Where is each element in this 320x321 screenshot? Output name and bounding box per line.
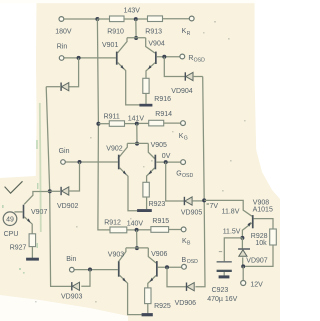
transistor V908	[252, 199, 273, 228]
wire 140V to R915	[138, 229, 151, 231]
svg-text:0V: 0V	[162, 153, 171, 160]
wire blanking bus vertical	[46, 87, 71, 287]
wire V904 emitter to R916	[146, 63, 155, 79]
wire R928 to 12V node	[245, 245, 273, 266]
resistor R916	[143, 78, 171, 103]
svg-text:R912: R912	[104, 219, 121, 226]
check mark	[5, 181, 23, 193]
wire V908 base to R928	[254, 219, 273, 229]
svg-text:V903: V903	[108, 251, 124, 258]
wire R915 to KB terminal	[169, 229, 182, 231]
svg-text:R911: R911	[104, 113, 120, 120]
svg-text:V908: V908	[253, 199, 269, 206]
scan margin right	[255, 0, 280, 199]
svg-text:180V: 180V	[55, 29, 72, 36]
svg-text:C923: C923	[212, 287, 229, 294]
wire V903 collector lead	[118, 248, 126, 262]
node 143V	[124, 7, 141, 21]
wire collector tee horizontal stage R	[127, 37, 146, 39]
arrow V903 emitter	[123, 278, 126, 282]
diode VD903	[61, 282, 83, 301]
wire R916 to ground	[145, 93, 147, 104]
wire V903 base line from Bin	[74, 269, 118, 271]
svg-text:143V: 143V	[124, 7, 141, 14]
svg-text:R923: R923	[149, 201, 166, 208]
svg-text:VD907: VD907	[246, 257, 268, 264]
wire 180V vertical rail	[97, 19, 110, 230]
resistor R915	[151, 218, 169, 232]
wire OSD bus vertical	[195, 77, 205, 287]
diode VD905	[181, 197, 203, 217]
wire R913 to KR terminal	[163, 18, 190, 20]
wire V905 base to G OSD	[156, 161, 181, 163]
node Gin junction	[78, 160, 82, 164]
transistor V901	[102, 42, 118, 65]
wire R923 to ground	[146, 197, 148, 209]
wire Rin junction drop	[69, 58, 79, 87]
wire R911 to 141V node	[125, 123, 136, 125]
svg-text:VD904: VD904	[171, 88, 193, 95]
node Bin junction	[88, 268, 92, 272]
arrow V908 emitter	[248, 222, 251, 227]
node collector tee stage B	[135, 246, 139, 250]
node Bin input terminal	[66, 256, 76, 272]
svg-text:VD903: VD903	[61, 294, 83, 301]
wire V901 emitter to ground	[118, 62, 140, 105]
svg-text:V905: V905	[151, 142, 167, 149]
wire V906 collector lead	[148, 248, 156, 263]
wire junction to R910	[97, 18, 109, 20]
wire V904 base to R OSD	[157, 56, 180, 58]
resistor R928	[251, 229, 277, 247]
green scan streak	[40, 103, 41, 232]
svg-text:V902: V902	[106, 145, 122, 152]
wire VD904 to OSD bus	[193, 76, 203, 78]
wire VD907 to 12V node	[242, 257, 244, 266]
scan margin left	[0, 0, 37, 178]
wire V907 collector	[24, 192, 50, 205]
svg-text:VD906: VD906	[175, 300, 197, 307]
wire VD905 to 7V node	[192, 200, 204, 202]
node B OSD terminal	[182, 257, 199, 269]
svg-text:Bin: Bin	[66, 256, 76, 263]
wire 141V to R914	[139, 122, 149, 124]
svg-text:7V: 7V	[210, 203, 219, 210]
wire V901 collector lead	[118, 38, 127, 53]
wire V902 base line from Gin	[65, 161, 118, 163]
gray speckles	[35, 21, 246, 303]
node KB output terminal	[181, 227, 191, 247]
wire V905 collector lead	[148, 143, 154, 158]
node 141V	[128, 115, 145, 125]
wire V902 collector lead	[118, 143, 127, 158]
transistor V905	[151, 142, 167, 169]
svg-text:140V: 140V	[127, 220, 144, 227]
transistor V902	[106, 145, 122, 169]
diode VD904	[171, 72, 193, 95]
diode VD907	[238, 249, 268, 264]
arrow V901 emitter	[121, 65, 124, 69]
capacitor C923	[207, 261, 237, 303]
arrow V906 emitter	[150, 278, 153, 282]
wire collector tee horizontal stage B	[126, 247, 148, 249]
ground C923	[219, 275, 230, 278]
ground CPU stage	[26, 258, 39, 261]
wire 143V to R913	[138, 18, 148, 20]
wire VD902 branch	[50, 190, 60, 192]
scan margin bottom left	[0, 295, 128, 321]
wire R912 to 140V node	[127, 229, 135, 231]
node 12V junction	[241, 264, 245, 268]
node Rin junction	[77, 56, 81, 60]
wire V902 emitter to ground	[120, 168, 138, 211]
svg-text:470µ 16V: 470µ 16V	[207, 296, 237, 303]
svg-text:A1015: A1015	[253, 206, 273, 213]
resistor R923	[143, 182, 166, 208]
svg-text:R928: R928	[251, 233, 268, 240]
ground stage G	[137, 209, 152, 212]
svg-text:Rin: Rin	[57, 44, 68, 51]
node blanking bus junction	[48, 189, 52, 193]
arrow V905 emitter	[149, 170, 152, 174]
wire V906 emitter to R925	[148, 276, 156, 288]
svg-text:R915: R915	[152, 218, 169, 225]
wire R925 to ground	[147, 304, 149, 314]
resistor R911	[104, 113, 125, 126]
wire 7V node to V908 collector	[204, 200, 252, 216]
svg-text:B: B	[187, 241, 191, 247]
transistor V906	[151, 251, 167, 277]
wire VD902 up to Gin junction	[69, 162, 80, 191]
node V906 base junction	[165, 265, 169, 269]
wire VD906 branch	[167, 267, 186, 286]
svg-text:Gin: Gin	[59, 148, 70, 155]
node V905 base junction 0V	[162, 153, 171, 164]
node KR output terminal	[182, 16, 195, 37]
scan margin top	[0, 0, 280, 3]
node V904 base junction	[162, 55, 166, 59]
wire R914 to KG terminal	[164, 122, 181, 124]
svg-text:V906: V906	[151, 251, 167, 258]
wire 11.5V node to C923	[224, 238, 242, 261]
arrow V904 emitter	[148, 65, 151, 69]
wire collector tee horizontal stage G	[127, 142, 148, 144]
wire 141V node drop	[136, 124, 138, 144]
wire rail to R911	[98, 123, 109, 125]
diode VD902	[57, 187, 79, 210]
wire 143V node drop	[135, 19, 137, 38]
svg-text:OSD: OSD	[194, 58, 205, 64]
svg-text:OSD: OSD	[182, 173, 193, 179]
wire 11.5V node to VD907	[241, 238, 243, 248]
svg-text:11.8V: 11.8V	[222, 209, 240, 216]
resistor R927	[10, 234, 36, 252]
ground stage B	[142, 313, 153, 316]
wire VD901 to blanking bus	[46, 86, 61, 88]
node CPU pin 49	[3, 212, 18, 238]
node Gin input terminal	[59, 148, 70, 164]
node collector tee stage R	[134, 36, 138, 40]
svg-text:VD905: VD905	[181, 209, 203, 216]
wire VD905 branch	[166, 162, 184, 201]
node 180V input terminal	[55, 17, 72, 36]
resistor R912	[104, 219, 127, 232]
wire R927 to ground	[31, 247, 33, 258]
wire V905 emitter to R923	[147, 168, 155, 182]
node collector tee stage G	[135, 142, 139, 146]
svg-text:R913: R913	[145, 29, 162, 36]
svg-text:G: G	[176, 170, 181, 177]
svg-text:10k: 10k	[255, 240, 267, 247]
wire V908 emitter down	[242, 223, 252, 238]
wire 180V rail top	[64, 18, 96, 20]
svg-text:OSD: OSD	[187, 259, 198, 265]
svg-text:R: R	[187, 31, 191, 37]
resistor R910	[107, 16, 124, 36]
node 7V	[202, 198, 218, 210]
node 11.5V	[223, 228, 245, 240]
wire V901 base line from Rin	[64, 57, 116, 59]
wire V907 base	[14, 211, 22, 213]
wire 140V node drop	[136, 230, 138, 248]
node G OSD terminal	[176, 160, 193, 179]
node rail junction J1	[95, 17, 99, 21]
wire R910 to 143V node	[124, 18, 134, 20]
svg-text:R916: R916	[154, 96, 171, 103]
node 140V	[127, 220, 144, 232]
svg-text:R910: R910	[107, 29, 124, 36]
node rail junction stage G	[96, 122, 100, 126]
diode VD906	[175, 283, 197, 307]
svg-text:CPU: CPU	[4, 231, 19, 238]
resistor R913	[145, 16, 162, 36]
capacitor C923 polarity mark	[219, 251, 222, 253]
ground stage R	[139, 104, 152, 107]
transistor V903	[108, 251, 124, 276]
node KG output terminal	[179, 121, 188, 142]
resistor R914	[149, 111, 172, 126]
node 12V terminal	[241, 281, 263, 289]
wire V903 emitter to ground	[120, 275, 142, 314]
node Rin input terminal	[57, 44, 68, 61]
svg-text:R927: R927	[10, 245, 27, 252]
svg-text:G: G	[184, 136, 188, 142]
svg-text:12V: 12V	[250, 282, 263, 289]
svg-text:VD902: VD902	[57, 203, 79, 210]
svg-text:141V: 141V	[128, 115, 145, 122]
wire Bin junction drop to VD903	[81, 270, 90, 287]
svg-text:R914: R914	[155, 111, 172, 118]
arrow V902 emitter	[123, 171, 126, 175]
svg-text:V901: V901	[102, 42, 118, 49]
wire V904 collector lead	[146, 38, 155, 53]
svg-text:V907: V907	[31, 209, 47, 216]
svg-text:49: 49	[6, 216, 14, 223]
svg-text:R925: R925	[154, 303, 171, 310]
wire VD904 branch	[164, 57, 185, 77]
resistor R925	[145, 288, 171, 310]
transistor V907	[23, 205, 48, 219]
green speckles	[2, 140, 38, 274]
svg-text:V904: V904	[148, 40, 164, 47]
arrow V907 emitter	[27, 218, 30, 222]
wire 12V junction to terminal	[242, 266, 244, 280]
node R OSD terminal	[180, 54, 205, 64]
wire V907 emitter to R927	[24, 217, 32, 234]
wire V906 base to B OSD	[158, 266, 182, 268]
diode VD901	[61, 83, 69, 91]
transistor V904	[148, 40, 164, 64]
svg-text:11.5V: 11.5V	[223, 228, 241, 235]
